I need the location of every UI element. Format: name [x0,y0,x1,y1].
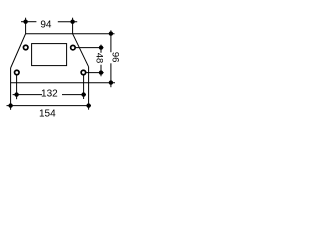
dimension 94 right extension line [72,18,74,34]
hole upper-right [71,45,76,50]
dimension 132 right extension line from lower-right hole [83,75,85,99]
dimension 154 left endpoint dot [8,103,12,107]
dimension 48 lower endpoint dot [99,70,103,74]
svg-text:96: 96 [110,52,121,63]
dimension 96 line lower segment [110,63,112,87]
dimension 154 right endpoint dot [86,103,90,107]
dimension 48 upper extension line from upper-right hole [76,47,104,49]
dimension 154 line [7,105,92,107]
plate left vertical edge and 154 extension line [10,68,12,110]
svg-text:154: 154 [39,108,56,119]
dimension 132 right endpoint dot [81,92,85,96]
dimension 132 left extension line from lower-left hole [16,75,18,99]
plate right slant edge [73,34,89,67]
hole lower-right [81,70,86,75]
dimension 132 line left segment [13,94,42,96]
plate bottom edge with extension to height dimension [11,82,115,84]
dimension 48 upper endpoint dot [99,45,103,49]
plate right vertical edge and 154 extension line [88,67,90,110]
dimension 94 right endpoint dot [70,20,74,24]
hole upper-left [23,45,28,50]
dimension 48 line lower segment [100,65,102,77]
plate top edge with extension to height dimension [26,33,115,35]
dimension 132 line right segment [62,94,86,96]
hole lower-left [15,70,20,75]
svg-text:94: 94 [40,20,52,31]
dimension 94 left extension line [25,18,27,34]
svg-text:48: 48 [94,53,105,64]
dimension 94 line left segment [21,21,36,23]
dimension 96 upper endpoint dot [109,31,113,35]
dimension 132 left endpoint dot [14,92,18,96]
dimension 96 line upper segment [110,30,112,52]
dimension 94 line right segment [58,21,77,23]
dimension 96 lower endpoint dot [109,80,113,84]
plate left slant edge [11,34,26,68]
dimension 48 lower extension line from lower-right hole [86,72,103,74]
svg-text:132: 132 [41,89,58,100]
dimension 48 line upper segment [100,45,102,53]
rectangular cutout [32,44,67,66]
dimension 94 left endpoint dot [23,20,27,24]
